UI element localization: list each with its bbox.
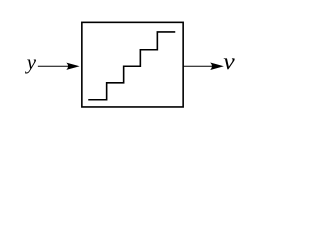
wire output [183,65,214,67]
wire input [38,65,71,67]
quantizer block [82,22,183,107]
node v label [224,58,235,69]
arrowhead output [210,63,224,70]
node y label [25,60,36,74]
arrowhead input [66,63,79,70]
staircase quantizer characteristic [88,32,175,100]
